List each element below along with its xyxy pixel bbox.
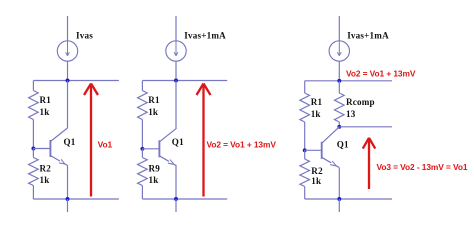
wire emitter Q1 (175, 166, 177, 199)
svg-text:Q1: Q1 (172, 137, 184, 147)
wire collector Q1 (67, 81, 69, 129)
transistor Q1 base wire (142, 148, 159, 150)
current source Ivas+1mA (166, 41, 186, 61)
svg-text:R1: R1 (40, 95, 52, 105)
node base3 (303, 148, 307, 152)
svg-text:Vo2 = Vo1 + 13mV: Vo2 = Vo1 + 13mV (346, 69, 416, 79)
bottom rail wire (33, 198, 119, 200)
transistor Q1 base wire (305, 149, 322, 151)
top rail node wire (142, 80, 227, 82)
svg-text:Ivas+1mA: Ivas+1mA (184, 31, 226, 41)
wire (338, 81, 340, 93)
wire (338, 16, 340, 41)
wire (67, 16, 69, 41)
svg-text:Vo2 = Vo1 + 13mV: Vo2 = Vo1 + 13mV (207, 140, 277, 150)
wire (32, 149, 34, 158)
svg-text:Vo3 = Vo2 - 13mV = Vo1: Vo3 = Vo2 - 13mV = Vo1 (377, 162, 468, 172)
wire stub (175, 199, 177, 212)
node bottom1 (66, 197, 70, 201)
bottom rail wire (142, 198, 227, 200)
annotation arrow Vo2 (202, 86, 204, 197)
wire (304, 122, 306, 150)
svg-text:R1: R1 (148, 95, 160, 105)
transistor Q1 base wire (33, 148, 50, 150)
svg-text:1k: 1k (311, 176, 322, 186)
node top2 (174, 79, 178, 83)
wire collector Q1 (175, 81, 177, 129)
resistor R1 (29, 91, 39, 120)
svg-text:1k: 1k (149, 175, 160, 185)
svg-text:Rcomp: Rcomp (346, 97, 375, 107)
node top1 (66, 79, 70, 83)
bottom rail wire (305, 198, 392, 200)
svg-text:1k: 1k (311, 109, 322, 119)
svg-text:R1: R1 (311, 97, 323, 107)
node base1 (31, 147, 35, 151)
annotation arrow Vo1 (90, 86, 92, 197)
wire (141, 81, 143, 91)
resistor R2 (300, 159, 310, 187)
svg-text:Q1: Q1 (337, 139, 349, 149)
svg-text:Ivas+1mA: Ivas+1mA (347, 31, 389, 41)
wire (304, 81, 306, 93)
wire emitter Q1 (338, 167, 340, 199)
wire (32, 186, 34, 200)
wire (141, 120, 143, 149)
transistor Q1 (158, 140, 160, 157)
wire (338, 122, 340, 127)
svg-text:Vo1: Vo1 (98, 140, 113, 150)
node bottom3 (337, 197, 341, 201)
wire (141, 149, 143, 158)
wire (32, 120, 34, 149)
resistor Rcomp (335, 93, 345, 122)
svg-text:Ivas: Ivas (76, 31, 93, 41)
resistor R2 (29, 158, 39, 186)
resistor R1 (300, 93, 310, 122)
wire stub (338, 199, 340, 212)
wire (175, 16, 177, 41)
current source Ivas (57, 41, 77, 61)
wire emitter Q1 (67, 166, 69, 200)
transistor Q1 (321, 142, 323, 159)
wire stub (67, 199, 69, 212)
wire (141, 186, 143, 200)
svg-text:13: 13 (346, 109, 356, 119)
node top3 Vo2 (337, 79, 341, 83)
svg-text:1k: 1k (148, 107, 159, 117)
node base2 (140, 147, 144, 151)
svg-text:R2: R2 (311, 166, 323, 176)
svg-text:Q1: Q1 (64, 137, 76, 147)
transistor Q1 (49, 140, 51, 157)
resistor R1 (138, 91, 148, 120)
wire (338, 61, 340, 80)
wire (304, 150, 306, 159)
top rail node wire (305, 80, 392, 82)
resistor R9 (138, 158, 148, 186)
current source Ivas+1mA (329, 41, 349, 61)
wire (67, 61, 69, 80)
svg-text:R2: R2 (40, 164, 52, 174)
wire (304, 187, 306, 200)
wire Vo3 out (339, 126, 392, 128)
svg-text:1k: 1k (40, 107, 51, 117)
svg-text:R9: R9 (149, 164, 161, 174)
wire (175, 61, 177, 80)
node bottom2 (174, 197, 178, 201)
annotation arrow Vo3 (368, 140, 370, 189)
svg-text:1k: 1k (40, 175, 51, 185)
wire (32, 81, 34, 91)
top rail node wire (33, 80, 119, 82)
node Vo3 (337, 125, 341, 129)
